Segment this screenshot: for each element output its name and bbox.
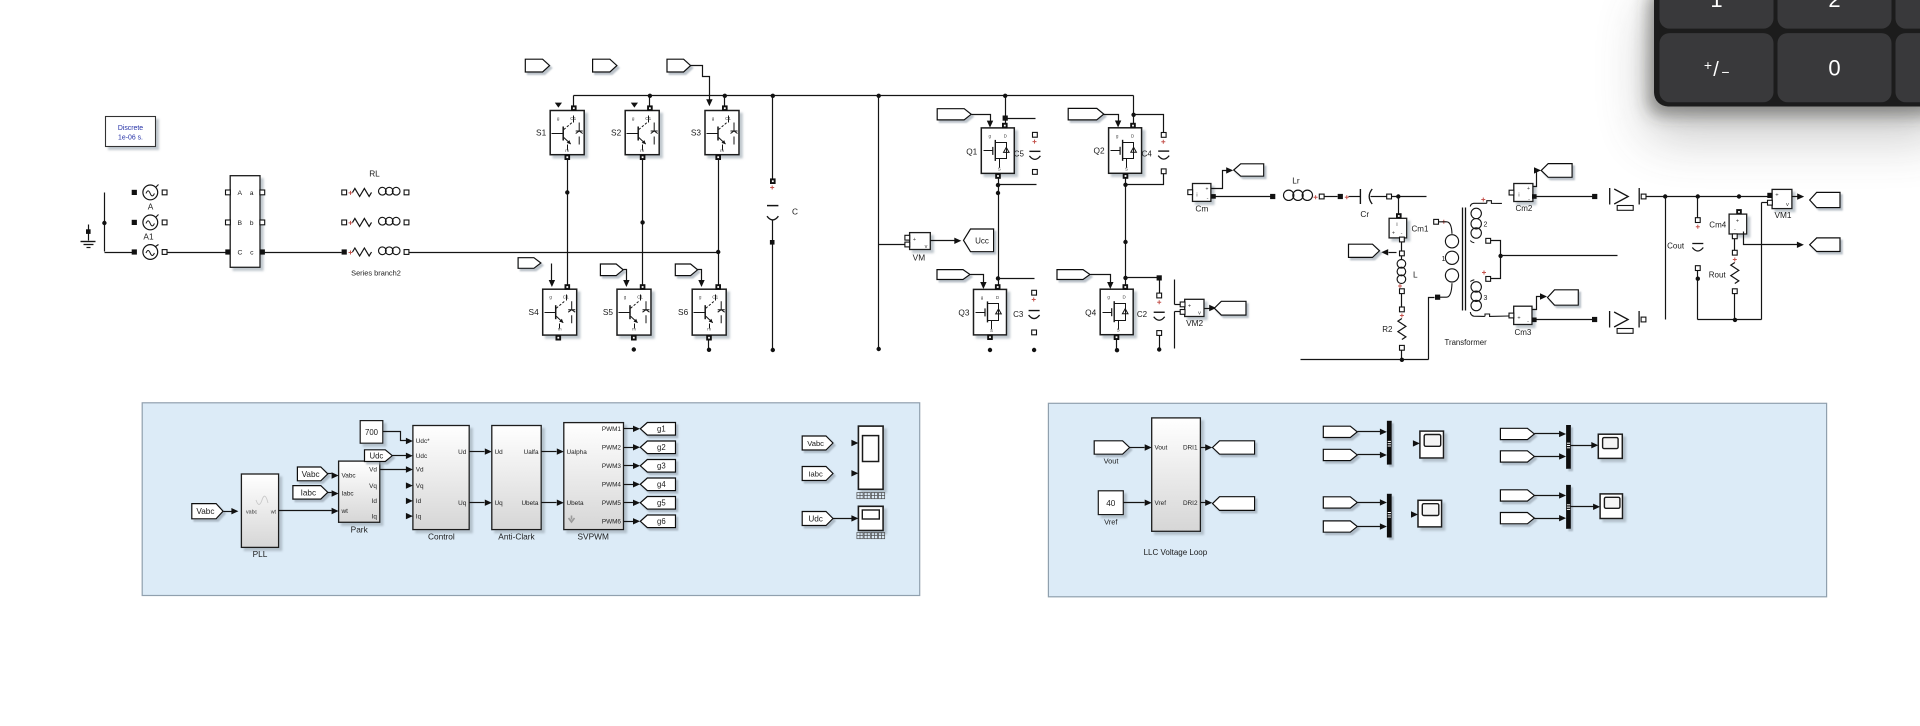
svg-text:Cout: Cout bbox=[1667, 242, 1685, 251]
svg-text:1e-06 s.: 1e-06 s. bbox=[118, 135, 143, 142]
svg-text:Uq: Uq bbox=[458, 500, 467, 507]
svg-text:b: b bbox=[250, 220, 254, 227]
svg-text:Series branch2: Series branch2 bbox=[351, 269, 401, 278]
svg-text:Vabc: Vabc bbox=[807, 439, 824, 448]
svg-text:Lr: Lr bbox=[1292, 176, 1300, 186]
svg-text:Ud: Ud bbox=[495, 449, 504, 456]
svg-text:Vabc: Vabc bbox=[342, 473, 357, 480]
svg-text:DRI1: DRI1 bbox=[1183, 445, 1198, 452]
svg-text:PLL: PLL bbox=[253, 549, 268, 559]
svg-text:+: + bbox=[1392, 231, 1395, 237]
svg-text:Udc: Udc bbox=[808, 514, 823, 523]
svg-text:wt: wt bbox=[271, 510, 277, 516]
svg-text:SVPWM: SVPWM bbox=[578, 532, 609, 542]
svg-text:m: m bbox=[565, 148, 569, 153]
svg-text:S5: S5 bbox=[603, 307, 614, 317]
svg-text:g5: g5 bbox=[657, 499, 666, 508]
svg-text:S: S bbox=[1125, 166, 1128, 171]
svg-text:S: S bbox=[1117, 328, 1120, 333]
svg-text:-: - bbox=[1528, 197, 1530, 203]
svg-text:Q4: Q4 bbox=[1085, 308, 1096, 318]
svg-text:Id: Id bbox=[416, 498, 422, 505]
svg-text:+: + bbox=[1527, 186, 1530, 192]
svg-text:S4: S4 bbox=[529, 307, 540, 317]
svg-text:-: - bbox=[1207, 196, 1209, 202]
svg-text:m: m bbox=[640, 148, 644, 153]
svg-text:C5: C5 bbox=[1014, 149, 1025, 158]
svg-text:700: 700 bbox=[365, 428, 379, 437]
svg-text:g: g bbox=[624, 295, 627, 300]
svg-text:Control: Control bbox=[428, 532, 455, 542]
svg-text:Uq: Uq bbox=[495, 500, 504, 507]
svg-text:S: S bbox=[998, 166, 1001, 171]
svg-text:Iq: Iq bbox=[372, 513, 378, 520]
svg-text:a: a bbox=[250, 190, 254, 197]
svg-text:Vq: Vq bbox=[416, 483, 424, 490]
svg-text:2: 2 bbox=[1828, 0, 1840, 12]
svg-text:Park: Park bbox=[351, 525, 369, 535]
svg-text:PWM5: PWM5 bbox=[602, 500, 622, 507]
svg-text:+: + bbox=[1206, 187, 1209, 193]
svg-text:Vref: Vref bbox=[1155, 500, 1167, 507]
svg-text:Vabc: Vabc bbox=[302, 470, 320, 479]
svg-text:Q2: Q2 bbox=[1094, 146, 1105, 156]
svg-text:3: 3 bbox=[1484, 295, 1488, 302]
svg-text:Udc: Udc bbox=[416, 453, 428, 460]
svg-text:+: + bbox=[1517, 316, 1520, 322]
svg-text:VM1: VM1 bbox=[1774, 210, 1791, 220]
svg-text:Cm2: Cm2 bbox=[1515, 204, 1532, 213]
svg-text:-: - bbox=[1401, 231, 1403, 237]
svg-text:g: g bbox=[712, 116, 715, 121]
svg-text:0: 0 bbox=[1828, 56, 1840, 81]
svg-text:Udc*: Udc* bbox=[416, 438, 430, 445]
svg-text:Ucc: Ucc bbox=[975, 236, 989, 245]
svg-text:g: g bbox=[632, 116, 635, 121]
svg-text:VM: VM bbox=[913, 253, 926, 263]
svg-text:S: S bbox=[990, 328, 993, 333]
svg-text:PWM6: PWM6 bbox=[602, 519, 622, 526]
svg-text:+: + bbox=[1188, 304, 1191, 310]
svg-text:m: m bbox=[632, 327, 636, 332]
svg-text:R2: R2 bbox=[1382, 325, 1393, 334]
svg-text:DRI2: DRI2 bbox=[1183, 500, 1198, 507]
svg-text:40: 40 bbox=[1106, 499, 1116, 508]
svg-text:i: i bbox=[1518, 193, 1519, 199]
svg-text:+: + bbox=[913, 237, 916, 243]
svg-text:Vd: Vd bbox=[416, 467, 424, 474]
svg-text:A1: A1 bbox=[143, 232, 154, 242]
svg-text:g6: g6 bbox=[657, 517, 666, 526]
svg-text:S6: S6 bbox=[678, 307, 689, 317]
svg-text:A: A bbox=[148, 202, 154, 212]
svg-text:C1: C1 bbox=[645, 116, 651, 121]
svg-text:PWM2: PWM2 bbox=[602, 445, 622, 452]
svg-text:Vref: Vref bbox=[1104, 518, 1118, 527]
svg-text:PWM1: PWM1 bbox=[602, 426, 622, 433]
svg-text:PWM4: PWM4 bbox=[602, 482, 622, 489]
svg-text:wt: wt bbox=[341, 508, 349, 515]
svg-text:g4: g4 bbox=[657, 480, 666, 489]
svg-text:C: C bbox=[792, 207, 798, 217]
svg-text:g: g bbox=[989, 133, 992, 138]
svg-text:v: v bbox=[925, 244, 928, 250]
svg-text:S1: S1 bbox=[536, 127, 547, 137]
svg-text:Q1: Q1 bbox=[966, 147, 977, 157]
svg-text:Udc: Udc bbox=[369, 452, 383, 461]
svg-text:C1: C1 bbox=[712, 295, 718, 300]
svg-text:/: / bbox=[1713, 59, 1719, 81]
svg-text:Transformer: Transformer bbox=[1445, 338, 1488, 347]
svg-text:v: v bbox=[1786, 202, 1789, 208]
svg-text:Cm4: Cm4 bbox=[1709, 221, 1726, 230]
svg-text:i: i bbox=[1196, 193, 1197, 199]
svg-text:A: A bbox=[238, 190, 243, 197]
svg-text:g: g bbox=[981, 295, 984, 300]
svg-text:m: m bbox=[707, 327, 711, 332]
svg-text:vabc: vabc bbox=[246, 510, 258, 516]
svg-text:Rout: Rout bbox=[1709, 270, 1727, 279]
svg-text:Iabc: Iabc bbox=[342, 491, 355, 498]
svg-text:Ualfa: Ualfa bbox=[524, 449, 539, 456]
svg-text:Ud: Ud bbox=[458, 449, 467, 456]
svg-text:m: m bbox=[720, 148, 724, 153]
svg-text:g3: g3 bbox=[657, 462, 666, 471]
svg-text:Iabc: Iabc bbox=[301, 488, 316, 497]
svg-text:c: c bbox=[250, 249, 254, 256]
svg-text:LLC Voltage Loop: LLC Voltage Loop bbox=[1144, 548, 1208, 557]
svg-text:Cm3: Cm3 bbox=[1514, 328, 1531, 337]
svg-text:S2: S2 bbox=[611, 127, 622, 137]
svg-text:RL: RL bbox=[369, 169, 380, 179]
svg-text:PWM3: PWM3 bbox=[602, 463, 622, 470]
svg-text:Iq: Iq bbox=[416, 513, 422, 520]
svg-text:Vabc: Vabc bbox=[196, 507, 214, 516]
svg-text:+: + bbox=[1704, 57, 1712, 73]
svg-text:g: g bbox=[557, 116, 560, 121]
svg-text:m: m bbox=[558, 327, 562, 332]
svg-text:+: + bbox=[1736, 219, 1739, 225]
svg-text:Cm: Cm bbox=[1195, 204, 1208, 214]
svg-text:v: v bbox=[1198, 311, 1201, 317]
svg-text:C1: C1 bbox=[725, 116, 731, 121]
svg-text:Id: Id bbox=[372, 498, 378, 505]
svg-text:−: − bbox=[1721, 64, 1729, 80]
svg-text:Iabc: Iabc bbox=[808, 469, 823, 478]
svg-text:Ualpha: Ualpha bbox=[567, 449, 588, 456]
svg-text:g2: g2 bbox=[657, 443, 666, 452]
svg-text:-: - bbox=[1527, 319, 1529, 325]
svg-text:g: g bbox=[699, 295, 702, 300]
svg-text:C1: C1 bbox=[570, 116, 576, 121]
svg-text:L: L bbox=[1413, 270, 1418, 280]
svg-text:C: C bbox=[238, 249, 243, 256]
svg-text:Vout: Vout bbox=[1104, 457, 1119, 466]
svg-text:C3: C3 bbox=[1013, 310, 1024, 319]
svg-text:C1: C1 bbox=[637, 295, 643, 300]
svg-text:2: 2 bbox=[1484, 222, 1488, 229]
svg-text:B: B bbox=[238, 220, 243, 227]
svg-text:C4: C4 bbox=[1142, 149, 1153, 158]
svg-text:Q3: Q3 bbox=[958, 308, 969, 318]
svg-text:S3: S3 bbox=[691, 127, 702, 137]
svg-text:C1: C1 bbox=[563, 295, 569, 300]
svg-text:Cm1: Cm1 bbox=[1412, 225, 1429, 234]
svg-text:Vd: Vd bbox=[369, 467, 377, 474]
svg-text:g: g bbox=[549, 295, 552, 300]
svg-text:Cr: Cr bbox=[1360, 209, 1369, 219]
svg-text:Ubeta: Ubeta bbox=[521, 500, 538, 507]
svg-text:1: 1 bbox=[1710, 0, 1722, 12]
svg-text:Vq: Vq bbox=[369, 483, 377, 490]
svg-text:Discrete: Discrete bbox=[118, 125, 143, 132]
svg-text:Vout: Vout bbox=[1155, 445, 1168, 452]
svg-text:i: i bbox=[1396, 222, 1397, 228]
svg-text:g1: g1 bbox=[657, 425, 666, 434]
svg-text:VM2: VM2 bbox=[1186, 318, 1203, 328]
svg-text:1: 1 bbox=[1442, 256, 1446, 263]
svg-text:Ubeta: Ubeta bbox=[567, 500, 584, 507]
svg-text:Anti-Clark: Anti-Clark bbox=[498, 532, 535, 542]
svg-text:g: g bbox=[1116, 133, 1119, 138]
svg-text:g: g bbox=[1107, 295, 1110, 300]
svg-text:C2: C2 bbox=[1137, 310, 1148, 319]
